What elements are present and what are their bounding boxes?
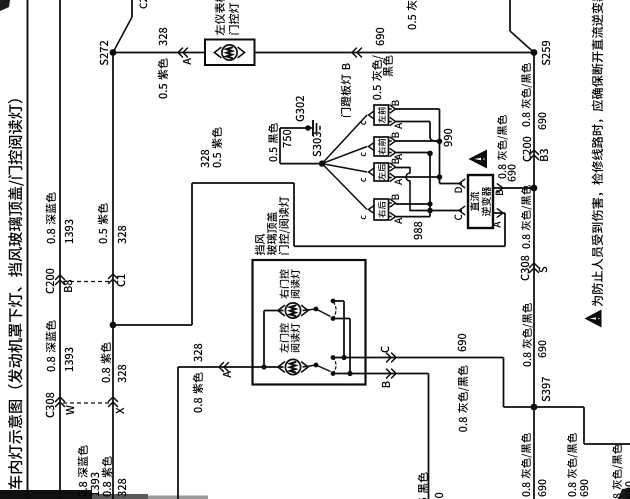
ground G302 <box>305 125 311 131</box>
junction 988 bus x288 <box>427 208 433 214</box>
wire S272 to S259 vertical <box>113 52 534 54</box>
label C200 on bus <box>523 155 531 161</box>
wire label 0.8 purple left <box>103 491 111 496</box>
junction on pin C wire <box>341 355 346 360</box>
pin B LR <box>390 163 395 171</box>
pin A RR <box>390 213 395 221</box>
wire 990 bus <box>439 109 441 184</box>
label 门蹬板灯 <box>341 108 351 117</box>
label C308 <box>46 411 54 417</box>
junction inside console <box>261 364 266 369</box>
wire 328 purple horizontal <box>112 53 114 499</box>
pin label B8 <box>64 286 72 292</box>
pin label S <box>539 267 547 273</box>
wire S303 to ground G302 <box>280 163 322 165</box>
wire label 0.8 deep-blue mid <box>47 366 55 371</box>
label 左仪表板门控灯 <box>215 25 225 35</box>
pin label C <box>381 346 389 352</box>
wire label 690 S397 drop <box>580 491 588 496</box>
wire label 328 <box>194 356 202 361</box>
wire 328 purple from left edge to reading lamps <box>177 367 179 499</box>
junction on wire 328 <box>110 322 117 329</box>
label S272 <box>100 59 108 65</box>
bus label 0.8 gray/black left <box>523 362 531 367</box>
splice S272 <box>110 49 117 56</box>
splice S303 <box>319 160 325 166</box>
warning triangle at inverter <box>469 150 488 169</box>
wire label 1393 right <box>65 238 73 243</box>
wire label 0.8 purple <box>194 407 202 412</box>
pin c LF <box>369 111 374 119</box>
pin C arrow inverter <box>459 206 465 214</box>
lamp left door reading lamp <box>285 359 300 374</box>
switch left reading lamp <box>303 365 317 367</box>
wire label 0.8 gray/black S397 drop <box>568 492 576 497</box>
connector C308 pin S on bus <box>530 268 539 273</box>
label 左门控阅读灯 <box>280 343 289 352</box>
label S259 <box>542 59 550 65</box>
pin B arrow inverter <box>497 184 503 192</box>
wire label 0.8 purple mid <box>102 377 110 382</box>
pin A LF <box>390 118 395 126</box>
wire label 0.5 black <box>269 157 277 162</box>
switch right reading lamp <box>303 309 317 311</box>
wire label 690 inverter <box>508 176 516 181</box>
wire 988 bus <box>429 153 431 216</box>
pin B arrow console <box>387 369 392 378</box>
warning text 为防止人员受到伤害 <box>592 296 603 306</box>
wire S397 drop to bottom edge <box>534 406 584 408</box>
label S303 <box>313 151 321 157</box>
wire riser LF pin B to 990 bus <box>396 108 440 110</box>
junction 990 bus x357 <box>437 138 443 144</box>
scan smudge left edge <box>0 490 92 499</box>
wire label 328 mid <box>118 377 126 382</box>
wire label 0.8 deep-blue right <box>47 238 55 243</box>
wire label 0.8 deep-blue left <box>79 491 87 496</box>
wire LF pin A elbow to 990 <box>396 121 431 123</box>
pin D arrow inverter <box>459 179 465 187</box>
wire label 0.5 purple <box>159 93 167 98</box>
wire label 328 left <box>118 491 126 496</box>
wire riser RR pin A to 988 <box>396 216 431 218</box>
pin label A console <box>223 371 231 378</box>
title rule <box>27 0 29 499</box>
cut label 0.5 gray <box>408 24 416 29</box>
junction on pin B wire <box>347 371 352 376</box>
splice S259 <box>531 49 538 56</box>
wire switch throw to pin C <box>333 300 344 302</box>
warning triangle note <box>585 310 602 328</box>
pin C arrow <box>387 353 392 362</box>
junction 988 bus x295 <box>427 201 432 206</box>
pin label A <box>183 58 191 65</box>
wire label 1393 left <box>91 491 99 496</box>
pin label A inverter <box>493 221 500 227</box>
wire switch throw to pin B <box>333 318 350 320</box>
pin c LR <box>369 168 374 176</box>
component box windshield header console <box>253 260 366 385</box>
scan smudge top-right corner <box>0 0 10 11</box>
label S397 <box>542 396 550 402</box>
wire label 1393 mid <box>65 366 73 371</box>
pin label B3 <box>540 155 548 161</box>
wire stub right edge to S259 <box>509 0 511 31</box>
label C200 <box>46 287 54 293</box>
pin A arrow inverter <box>497 209 503 217</box>
wire label 690 <box>376 40 384 45</box>
door jamb switch RF box 右前 <box>374 137 389 156</box>
connector C200 pin B3 on bus <box>530 155 539 160</box>
wire label 0.5 purple right <box>99 238 107 243</box>
pin label D inverter <box>455 187 462 192</box>
connector C308 pin X on wire 328 <box>109 402 118 407</box>
pin A arrow on lamp wire <box>178 48 183 57</box>
wire riser RF pin A to 988 <box>396 152 431 154</box>
wire label 690 pin C <box>458 346 466 351</box>
junction inverter pin B on bus <box>531 185 538 192</box>
component box U1 DC inverter 直流逆变器 <box>468 175 493 228</box>
door jamb switch RR box 右后 <box>374 199 389 220</box>
junction 988 bus x345 <box>427 151 433 157</box>
lamp E1 left instrument panel courtesy lamp <box>222 45 237 60</box>
wire pin B black to left edge <box>333 373 429 375</box>
pin c RF <box>369 143 374 151</box>
pin B RR <box>390 199 395 207</box>
pin label C1 <box>117 280 125 286</box>
wire 328 feed drop to console <box>113 324 192 326</box>
wire riser RR pin B to 988 <box>396 203 431 205</box>
wire label 0.8 gray/black pin C <box>459 427 467 432</box>
pin label B <box>342 63 350 69</box>
pin A RF <box>390 149 395 157</box>
pin B RF <box>390 137 395 145</box>
connector C200 pin C1 on wire 328 <box>109 279 118 284</box>
label G302 <box>296 115 304 121</box>
scan smudge bottom-left corner <box>618 488 630 499</box>
pin label C inverter <box>455 214 463 220</box>
wire LR pin B jog with hop to 988 <box>396 167 411 169</box>
lamp right door reading lamp <box>285 303 300 318</box>
pin A arrow console <box>219 363 224 372</box>
wire riser LR pin A to 990 <box>396 176 440 178</box>
pin label B console <box>382 381 390 387</box>
wire 1393 dark-blue horizontal <box>59 0 61 499</box>
label 990 <box>444 141 452 146</box>
bus label 690 far-left <box>538 491 546 496</box>
pin B arrow on lamp wire <box>352 48 357 57</box>
title 车内灯示意图（发动机罩下灯、挡风玻璃顶盖/门控阅读灯） <box>8 476 22 490</box>
pin A LR <box>390 174 395 182</box>
wire label 328 <box>159 40 167 45</box>
cut label 690 bottom <box>625 493 630 498</box>
label C308 on bus <box>521 274 529 280</box>
label 988 <box>414 234 422 239</box>
pin label X <box>116 408 124 414</box>
wire pin C 690 gray/black to S397 <box>333 357 504 359</box>
junction 990 bus x322 <box>437 174 443 180</box>
wire inverter pin B to bus 690 <box>493 187 534 189</box>
wire riser RF pin B to 990 <box>396 140 440 142</box>
wire stub S272 to right edge <box>113 17 132 53</box>
pin label B inverter <box>496 190 503 195</box>
bus label 690 left <box>538 352 546 357</box>
connector C200 pin B8 on wire 1393 <box>56 280 65 285</box>
wire label 0.5 purple riser <box>213 162 221 167</box>
lamp box left instrument panel courtesy lamp <box>205 40 255 66</box>
wire label 0.5 gray/black <box>373 95 381 100</box>
door jamb switch LR box 左后 <box>374 163 389 181</box>
door jamb switch LF box 左前 <box>374 105 389 125</box>
wire label 0.8 gray/black inverter <box>498 174 506 179</box>
bus label 0.8 gray/black far-left <box>522 492 530 497</box>
wire label 328 right <box>118 238 126 243</box>
connector C308 pin W on wire 1393 <box>56 402 65 407</box>
pin c RR <box>369 206 374 214</box>
wire console internal feed <box>253 366 284 368</box>
wire riser 990 to inverter pin D <box>440 183 463 185</box>
bus label 0.8 gray/black mid <box>522 244 530 249</box>
wire label 750 <box>283 142 291 147</box>
connector C200 dashed link <box>63 281 110 283</box>
pin B LF <box>390 105 395 113</box>
connector C308 dashed link <box>63 402 110 404</box>
label 挡风玻璃顶盖门控/阅读灯 <box>255 245 265 255</box>
cut label C2 <box>140 3 148 9</box>
wire riser 988 to inverter pin C <box>430 210 462 212</box>
wire label 328 riser <box>201 162 209 167</box>
wire 328 feed jog to inverter <box>293 183 295 246</box>
wire 328 feed riser x316 <box>192 182 294 184</box>
bus label 0.8 gray/black right <box>522 122 530 127</box>
fan wires S303 to door switches <box>322 115 367 164</box>
splice S397 <box>531 404 538 411</box>
cut label 0.8 gray/black bottom <box>613 493 621 498</box>
wire 690 gray/black bus horizontal <box>533 53 535 499</box>
bus label 690 right <box>538 124 546 129</box>
label 右门控阅读灯 <box>280 290 289 299</box>
pin label W <box>66 405 74 414</box>
